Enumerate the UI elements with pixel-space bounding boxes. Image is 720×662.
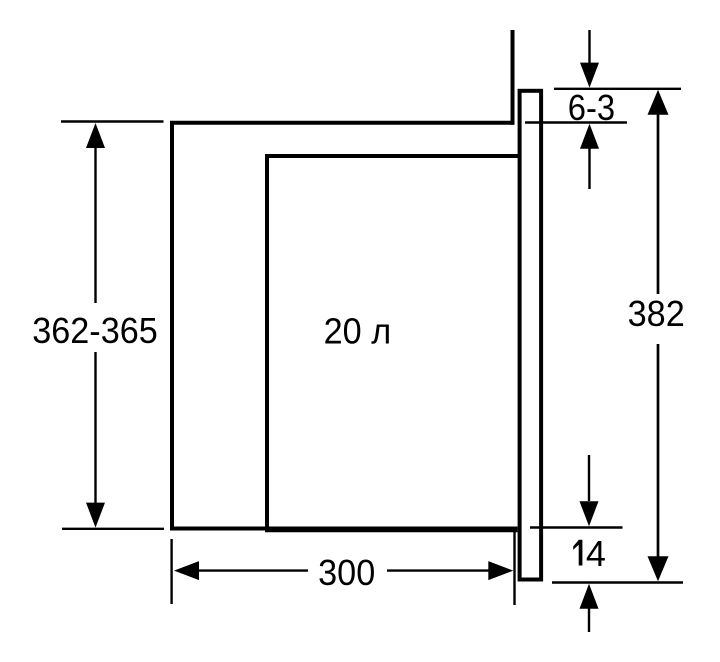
dim 300 right extension line (513, 531, 515, 605)
cavity outline (267, 156, 520, 530)
oven body outline (172, 123, 518, 529)
dim 300 right arrow (387, 561, 513, 580)
dim 362-365 top extension line (61, 120, 164, 122)
dim 300 left extension line (170, 539, 172, 604)
dim 382 upper arrow (648, 90, 669, 294)
dim 14 upper arrow (580, 455, 599, 526)
dim 362-365 dimension line lower arrow (86, 352, 105, 528)
dim 14 top extension line (530, 526, 623, 528)
svg-text:4: 4 (586, 533, 606, 574)
svg-text:300: 300 (318, 553, 375, 593)
dim 300 left arrow (174, 561, 308, 580)
svg-text:6-3: 6-3 (568, 89, 615, 129)
dim 6-3 upper arrow (580, 30, 599, 88)
label 14 digit 1 (custom glyph, no foot serif) (573, 540, 582, 566)
svg-text:362-365: 362-365 (32, 311, 158, 351)
dim 362-365 dimension line upper arrow (86, 123, 105, 303)
dim 362-365 bottom extension line (62, 528, 164, 530)
front panel (520, 91, 542, 580)
dim 6-3 lower arrow (580, 124, 599, 189)
svg-text:20 л: 20 л (324, 312, 391, 352)
dim 382 lower arrow (648, 344, 669, 581)
dim 14 lower arrow (580, 584, 599, 632)
wall line (511, 30, 515, 125)
dim 14 bottom extension line (552, 581, 683, 583)
svg-text:382: 382 (628, 294, 685, 334)
dim 6-3 lower extension line (525, 121, 627, 123)
dim 6-3 top extension line (554, 88, 681, 90)
